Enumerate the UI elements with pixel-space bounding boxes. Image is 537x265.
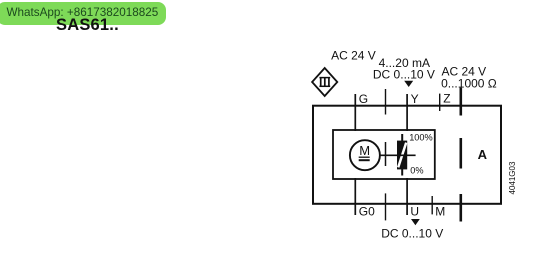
potentiometer stem bbox=[401, 134, 403, 176]
svg-text:100%: 100% bbox=[409, 132, 433, 142]
svg-text:Y: Y bbox=[411, 92, 419, 106]
wire G0 bbox=[354, 178, 356, 215]
dashed bus A bbox=[459, 88, 462, 222]
svg-text:DC 0...10 V: DC 0...10 V bbox=[381, 227, 443, 241]
svg-text:U: U bbox=[410, 204, 419, 218]
svg-text:Z: Z bbox=[443, 92, 450, 106]
svg-text:DC 0...10 V: DC 0...10 V bbox=[373, 68, 435, 82]
svg-text:M: M bbox=[359, 143, 370, 158]
svg-text:M: M bbox=[435, 204, 445, 218]
svg-text:A: A bbox=[478, 147, 488, 162]
terminal Z tick bbox=[439, 94, 441, 111]
wire motor link bbox=[380, 154, 416, 156]
wire stub bottom bbox=[385, 193, 387, 220]
protection class III diamond bbox=[312, 68, 337, 96]
mechanical coupling bar bbox=[385, 142, 387, 166]
wire Y bbox=[406, 94, 408, 131]
svg-text:AC 24 V: AC 24 V bbox=[331, 48, 376, 62]
arrow top (signal input) bbox=[404, 81, 413, 87]
inner box (drive unit) bbox=[333, 130, 435, 179]
wire U bbox=[406, 178, 408, 215]
svg-text:0...1000 Ω: 0...1000 Ω bbox=[441, 77, 497, 91]
motor M bbox=[350, 140, 380, 170]
svg-text:G0: G0 bbox=[359, 204, 375, 218]
svg-text:4041G03: 4041G03 bbox=[508, 161, 517, 194]
terminal M tick bbox=[431, 196, 433, 214]
wire G bbox=[354, 94, 356, 131]
outer box (actuator housing) bbox=[313, 106, 501, 204]
wire stub top bbox=[385, 89, 387, 115]
svg-text:0%: 0% bbox=[410, 166, 423, 176]
potentiometer body bbox=[397, 141, 407, 170]
potentiometer wiper stripe bbox=[398, 143, 406, 168]
svg-text:G: G bbox=[359, 92, 368, 106]
arrow bottom (signal output) bbox=[411, 219, 420, 225]
